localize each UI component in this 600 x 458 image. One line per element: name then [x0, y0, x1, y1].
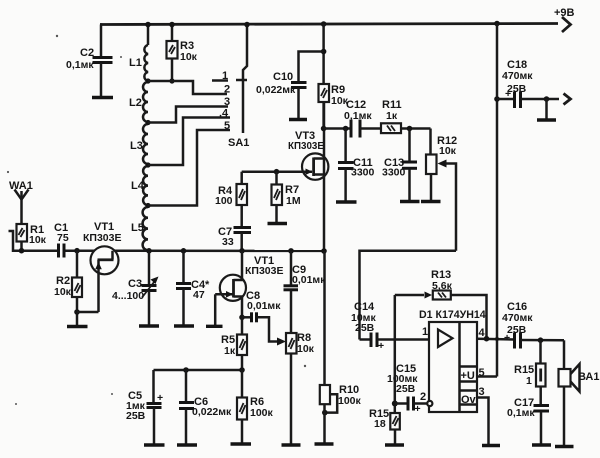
speaker BA1: [559, 340, 600, 445]
svg-text:WA1: WA1: [9, 180, 33, 192]
svg-text:47: 47: [193, 289, 205, 301]
capacitor C4: [176, 251, 210, 325]
svg-text:100к: 100к: [338, 395, 362, 407]
svg-text:0,022мк: 0,022мк: [256, 84, 296, 96]
wire stub left of R1: [9, 231, 22, 251]
inductor L2: [129, 82, 148, 122]
svg-text:+: +: [415, 403, 421, 415]
IC D1 K174UN14: [419, 309, 486, 412]
node coil taps: [145, 78, 174, 208]
ground C5: [144, 443, 165, 446]
junction dots top rail: [145, 21, 500, 28]
svg-text:0,1мк: 0,1мк: [344, 110, 372, 122]
svg-text:33: 33: [222, 236, 234, 248]
switch SA1 wiper: [228, 25, 249, 150]
svg-text:1: 1: [422, 326, 428, 338]
capacitor C11: [338, 126, 375, 201]
junction dots rail A: [19, 248, 327, 254]
speck marks (scan noise): [7, 35, 306, 405]
node VT2 source junction: [239, 315, 245, 321]
switch SA1 pin numbers: [219, 70, 230, 132]
svg-text:5: 5: [479, 367, 485, 379]
svg-text:C10: C10: [273, 71, 293, 83]
wire C5/C6 rail: [154, 367, 245, 373]
capacitor C1: [54, 222, 69, 258]
svg-text:C2: C2: [80, 47, 94, 59]
svg-text:3: 3: [479, 386, 485, 398]
capacitor C15: [387, 363, 427, 415]
svg-text:+: +: [378, 340, 384, 352]
svg-text:+9В: +9В: [554, 7, 575, 19]
capacitor C10: [256, 49, 326, 118]
resistor R6: [237, 370, 274, 443]
resistor R2: [54, 251, 82, 326]
wire C18 +9V vertical: [496, 24, 499, 377]
capacitor C17: [507, 397, 549, 444]
svg-text:10к: 10к: [297, 343, 315, 355]
resistor R4: [215, 172, 247, 227]
wire R9 branch from rail: [322, 24, 325, 84]
svg-text:C3: C3: [128, 278, 142, 290]
svg-text:25В: 25В: [507, 324, 527, 336]
resistor R14 (labeled R15 18): [369, 408, 400, 444]
wire rail B audio: [360, 251, 457, 340]
svg-text:0,01мк: 0,01мк: [247, 300, 281, 312]
ground R10: [315, 442, 334, 445]
ground C4: [174, 324, 194, 327]
svg-text:1к: 1к: [224, 345, 236, 357]
svg-text:L4: L4: [131, 180, 145, 192]
svg-text:4: 4: [479, 327, 486, 339]
svg-text:L2: L2: [129, 97, 142, 109]
svg-text:0,1мк: 0,1мк: [66, 59, 94, 71]
svg-text:3300: 3300: [351, 167, 375, 179]
svg-text:25В: 25В: [355, 322, 375, 334]
svg-text:0,022мк: 0,022мк: [192, 406, 232, 418]
svg-text:5: 5: [224, 120, 230, 132]
ground R6: [231, 442, 252, 445]
wire tap L2-L3 to contact 3: [148, 107, 228, 123]
capacitor C16: [502, 301, 564, 349]
capacitor C6: [179, 370, 232, 444]
wire tap L4-L5 to contact 5: [148, 130, 230, 206]
capacitor C13: [382, 126, 417, 201]
ground R7: [268, 222, 288, 225]
capacitor C8: [242, 290, 286, 346]
resistor R15: [514, 340, 546, 405]
ground C10: [289, 118, 307, 121]
svg-text:0,1мк: 0,1мк: [507, 407, 535, 419]
ground C2: [92, 96, 113, 99]
inductor L1: [129, 25, 148, 82]
svg-text:100к: 100к: [250, 407, 274, 419]
ground R12: [421, 200, 441, 203]
inductor L5: [131, 207, 148, 251]
svg-text:10к: 10к: [439, 145, 457, 157]
capacitor C12: [321, 99, 381, 138]
ground BA1: [555, 445, 574, 448]
wire tap L1-L2 to contact 2: [148, 81, 227, 94]
svg-text:L5: L5: [131, 222, 144, 234]
svg-text:25В: 25В: [126, 410, 146, 422]
svg-text:3300: 3300: [382, 167, 406, 179]
svg-text:25В: 25В: [396, 383, 416, 395]
svg-text:470мк: 470мк: [502, 312, 533, 324]
resistor R7: [272, 169, 301, 223]
ground R14: [385, 443, 404, 446]
svg-text:SA1: SA1: [228, 137, 249, 149]
capacitor C5: [126, 370, 163, 444]
resistor R8 potentiometer: [286, 332, 315, 444]
svg-text:L3: L3: [130, 140, 143, 152]
svg-text:D1 К174УН14: D1 К174УН14: [419, 309, 486, 321]
capacitor C9: [284, 251, 327, 333]
wire C18 output arrow: [564, 94, 571, 105]
svg-text:5,6к: 5,6к: [432, 280, 453, 292]
resistor R9: [319, 84, 349, 129]
capacitor C3 variable: [112, 251, 159, 325]
svg-text:10к: 10к: [29, 234, 47, 246]
resistor R5: [221, 317, 247, 370]
svg-text:100: 100: [215, 195, 233, 207]
svg-text:1M: 1M: [286, 195, 301, 207]
svg-text:10к: 10к: [180, 51, 198, 63]
svg-text:КП303Е: КП303Е: [83, 232, 121, 244]
capacitor C7: [218, 226, 251, 251]
resistor R12 trimmer: [426, 129, 457, 251]
svg-text:КП303Е: КП303Е: [245, 265, 283, 277]
svg-text:25В: 25В: [507, 83, 527, 95]
svg-text:.4: .4: [219, 108, 229, 120]
capacitor C2: [66, 25, 113, 97]
inductor L4: [131, 166, 148, 205]
svg-text:4...100: 4...100: [112, 290, 144, 302]
svg-text:L1: L1: [129, 57, 142, 69]
inductor L3: [130, 124, 148, 164]
transistor VT1: [77, 221, 121, 312]
resistor R11: [381, 99, 431, 133]
svg-text:3: 3: [224, 96, 230, 108]
ground R2: [67, 325, 88, 328]
svg-text:1: 1: [526, 375, 532, 387]
svg-text:+U: +U: [461, 370, 475, 382]
antenna WA1: [9, 180, 33, 224]
capacitor C18: [494, 59, 559, 108]
ground pin 3: [482, 444, 500, 447]
transistor VT2: [215, 251, 283, 325]
svg-text:75: 75: [57, 232, 69, 244]
resistor R10: [320, 251, 362, 443]
node pin 2: [420, 391, 432, 406]
resistor R1: [17, 224, 47, 251]
transistor VT3: [242, 130, 329, 180]
svg-text:+: +: [157, 392, 163, 404]
wire R13 to C15 node vertical: [394, 295, 397, 413]
ground C17: [532, 443, 551, 446]
ground VT2 gate: [206, 325, 223, 328]
svg-text:2: 2: [420, 391, 426, 403]
wire top +9V rail: [100, 17, 571, 32]
svg-text:1: 1: [222, 70, 228, 82]
resistor R3: [167, 25, 198, 82]
capacitor C14: [351, 301, 429, 352]
wire pin 3 ground: [477, 386, 489, 444]
svg-text:18: 18: [374, 418, 386, 430]
svg-text:10к: 10к: [54, 286, 72, 298]
wire pin 4 output: [477, 327, 514, 342]
svg-text:470мк: 470мк: [502, 70, 533, 82]
ground C6: [177, 443, 197, 446]
ground R8: [282, 443, 301, 446]
switch SA1 contact 1: [212, 79, 228, 82]
svg-text:Ov: Ov: [461, 394, 477, 406]
svg-text:2: 2: [224, 84, 230, 96]
ground C11: [336, 200, 357, 203]
svg-text:1к: 1к: [386, 110, 398, 122]
svg-text:0,01мк: 0,01мк: [292, 274, 326, 286]
ground C3: [139, 324, 159, 327]
svg-text:КП303Е: КП303Е: [288, 141, 324, 152]
wire tap L3-L4 to contact 4: [148, 118, 230, 166]
resistor R13 feedback: [395, 269, 487, 338]
wire VT3 vertical: [323, 102, 326, 251]
wire rail A: [22, 249, 325, 252]
ground C18 branch: [537, 96, 556, 120]
wire pin 5 supply: [477, 367, 497, 379]
svg-text:ВА1: ВА1: [578, 371, 599, 383]
ground C13: [400, 200, 420, 203]
